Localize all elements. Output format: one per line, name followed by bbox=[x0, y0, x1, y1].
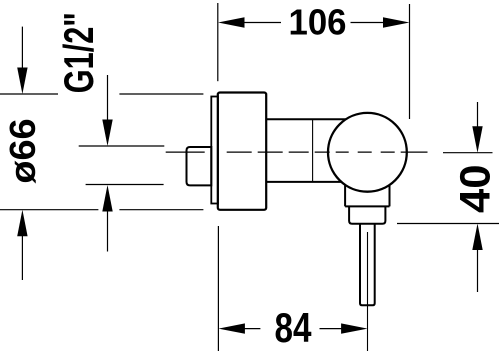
svg-text:106: 106 bbox=[289, 2, 347, 43]
svg-text:ø66: ø66 bbox=[2, 118, 43, 183]
svg-text:40: 40 bbox=[451, 164, 499, 213]
svg-text:G1/2": G1/2" bbox=[55, 12, 102, 93]
svg-text:84: 84 bbox=[275, 304, 312, 351]
